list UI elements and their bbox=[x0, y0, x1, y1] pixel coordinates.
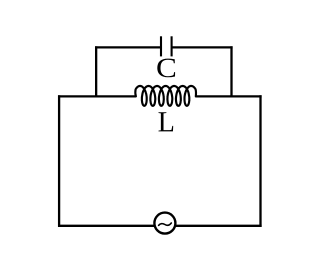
wire: outer loop left side bbox=[58, 95, 60, 227]
label C bbox=[157, 59, 175, 78]
capacitor C right plate bbox=[171, 36, 173, 56]
wire: top side, left of inductor bbox=[58, 95, 136, 97]
wire: capacitor branch top, right of C bbox=[172, 46, 232, 48]
AC source circle bbox=[154, 213, 175, 234]
inductor L coil bbox=[135, 86, 196, 106]
wire: capacitor branch left vertical bbox=[95, 46, 97, 97]
wire: capacitor branch top, left of C bbox=[95, 46, 160, 48]
label L bbox=[159, 112, 174, 131]
capacitor C left plate bbox=[160, 36, 162, 56]
AC source sine symbol bbox=[159, 223, 172, 225]
wire: outer bottom, right of source bbox=[175, 225, 261, 227]
wire: outer bottom, left of source bbox=[58, 225, 155, 227]
wire: capacitor branch right vertical bbox=[230, 46, 232, 97]
wire: top side, right of inductor bbox=[196, 95, 262, 97]
wire: outer loop right side bbox=[259, 95, 261, 227]
